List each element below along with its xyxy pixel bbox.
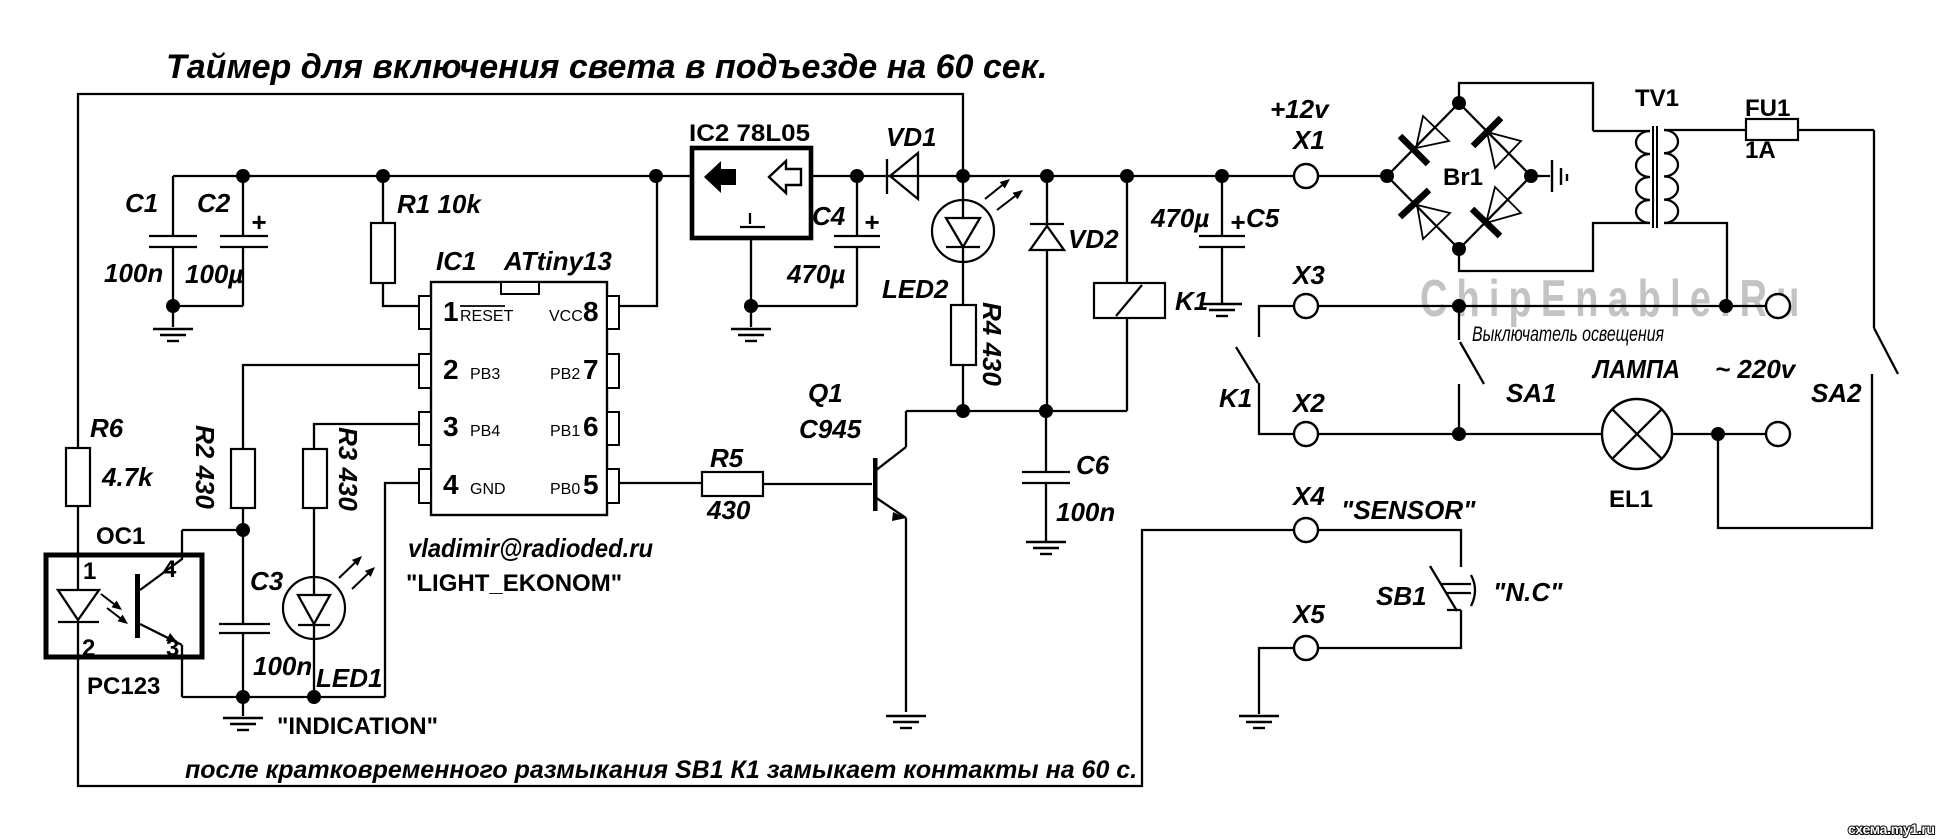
svg-text:1: 1 (443, 296, 459, 327)
svg-text:VD2: VD2 (1068, 224, 1119, 254)
svg-text:470µ: 470µ (1150, 203, 1209, 233)
svg-text:1A: 1A (1745, 137, 1776, 164)
svg-text:LED1: LED1 (316, 663, 382, 693)
svg-text:OC1: OC1 (96, 523, 145, 550)
svg-text:C6: C6 (1076, 450, 1110, 480)
svg-text:IC1: IC1 (436, 246, 476, 276)
svg-text:"LIGHT_EKONOM": "LIGHT_EKONOM" (406, 570, 622, 597)
svg-text:4: 4 (163, 556, 177, 583)
svg-text:EL1: EL1 (1609, 486, 1653, 513)
svg-text:FU1: FU1 (1745, 95, 1790, 122)
svg-text:C5: C5 (1246, 203, 1280, 233)
svg-text:100µ: 100µ (185, 259, 243, 289)
svg-text:5: 5 (583, 469, 599, 500)
svg-text:K1: K1 (1175, 286, 1208, 316)
svg-text:2: 2 (443, 354, 459, 385)
svg-text:схема.my1.ru: схема.my1.ru (1848, 821, 1935, 837)
svg-text:X5: X5 (1291, 599, 1325, 629)
svg-text:VCC: VCC (549, 308, 583, 325)
svg-text:8: 8 (583, 296, 599, 327)
svg-text:RESET: RESET (460, 308, 514, 325)
svg-text:GND: GND (470, 481, 506, 498)
svg-text:после кратковременного размык: после кратковременного размыкания SB1 К1… (185, 756, 1137, 784)
svg-text:~ 220v: ~ 220v (1715, 354, 1797, 384)
svg-text:100n: 100n (253, 651, 312, 681)
svg-text:Br1: Br1 (1443, 164, 1483, 191)
svg-text:7: 7 (583, 354, 599, 385)
svg-text:+12v: +12v (1270, 94, 1330, 124)
svg-text:R3 430: R3 430 (333, 427, 363, 511)
svg-text:R1 10k: R1 10k (397, 189, 482, 219)
svg-text:X4: X4 (1291, 481, 1325, 511)
svg-text:C3: C3 (250, 566, 284, 596)
svg-text:Таймер для включения света в п: Таймер для включения света в подъезде на… (166, 48, 1047, 86)
svg-text:430: 430 (706, 495, 751, 525)
svg-text:PB0: PB0 (550, 481, 580, 498)
svg-text:PC123: PC123 (87, 673, 160, 700)
svg-text:4.7k: 4.7k (101, 462, 154, 492)
svg-text:R2 430: R2 430 (190, 425, 220, 509)
svg-text:C4: C4 (812, 201, 846, 231)
svg-text:PB2: PB2 (550, 366, 580, 383)
svg-text:TV1: TV1 (1635, 85, 1679, 112)
svg-text:R5: R5 (710, 443, 744, 473)
svg-text:PB4: PB4 (470, 423, 500, 440)
svg-text:X2: X2 (1291, 388, 1325, 418)
svg-text:X1: X1 (1291, 125, 1325, 155)
svg-text:vladimir@radioded.ru: vladimir@radioded.ru (408, 533, 653, 563)
svg-text:LED2: LED2 (882, 274, 949, 304)
svg-text:+: + (1230, 207, 1245, 237)
svg-text:SB1: SB1 (1376, 581, 1427, 611)
svg-text:4: 4 (443, 469, 459, 500)
svg-text:C945: C945 (799, 414, 862, 444)
svg-text:PB3: PB3 (470, 366, 500, 383)
svg-text:PB1: PB1 (550, 423, 580, 440)
svg-text:470µ: 470µ (786, 259, 845, 289)
svg-text:100n: 100n (1056, 497, 1115, 527)
svg-text:6: 6 (583, 411, 599, 442)
svg-text:+: + (864, 207, 879, 237)
svg-text:2: 2 (82, 635, 95, 662)
svg-text:"N.C": "N.C" (1493, 577, 1563, 607)
svg-text:IC2 78L05: IC2 78L05 (689, 120, 810, 147)
svg-text:X3: X3 (1291, 260, 1325, 290)
svg-text:ЛАМПА: ЛАМПА (1591, 354, 1680, 384)
svg-text:K1: K1 (1219, 383, 1252, 413)
svg-text:1: 1 (83, 558, 96, 585)
svg-text:C2: C2 (197, 188, 231, 218)
svg-text:Q1: Q1 (808, 378, 843, 408)
svg-text:C1: C1 (125, 188, 158, 218)
svg-text:R4 430: R4 430 (977, 302, 1007, 386)
svg-text:100n: 100n (104, 258, 163, 288)
svg-text:3: 3 (443, 411, 459, 442)
svg-text:Выключатель освещения: Выключатель освещения (1472, 323, 1664, 346)
svg-text:"SENSOR": "SENSOR" (1341, 495, 1476, 525)
svg-text:+: + (251, 207, 266, 237)
svg-text:SA1: SA1 (1506, 378, 1557, 408)
svg-text:ChipEnable.Ru: ChipEnable.Ru (1420, 269, 1809, 327)
svg-text:R6: R6 (90, 413, 124, 443)
svg-text:SA2: SA2 (1811, 378, 1862, 408)
svg-text:VD1: VD1 (886, 122, 937, 152)
svg-text:ATtiny13: ATtiny13 (503, 246, 612, 276)
svg-text:"INDICATION": "INDICATION" (277, 713, 438, 740)
